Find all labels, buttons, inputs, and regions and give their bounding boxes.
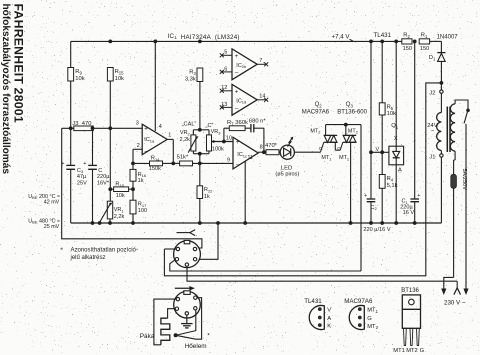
wire R17 to ground rail [132,214,134,223]
svg-text:100k: 100k [212,146,224,152]
svg-text:Q1: Q1 [391,123,399,129]
resistor J3 470 [74,126,93,131]
node pots top/R3 [198,128,202,132]
resistor R9 10k [68,68,74,82]
wire R14 right [163,162,174,164]
svg-text:R22: R22 [204,187,213,193]
svg-text:1k: 1k [204,194,210,200]
svg-text:10: 10 [226,136,232,142]
wire IC1a pin4 to rail [154,41,156,131]
VR3 wiper arrow to IC1c pin10 [212,141,233,143]
wire R3 to pots [199,82,201,130]
svg-text:25V: 25V [77,181,87,187]
node C/rail [91,221,95,225]
svg-text:„CAL”: „CAL” [182,122,197,128]
wire triac MT2 to heater pin [170,260,361,271]
svg-text:~: ~ [431,129,435,135]
node R18/R15col [108,187,112,191]
iron ground symbol [186,315,188,323]
wire R18 left [110,188,113,190]
svg-text:Q2: Q2 [315,102,323,108]
svg-text:Azonosíthatatlan pozíció-: Azonosíthatatlan pozíció- [71,248,138,254]
resistor R18 10k [114,187,129,192]
wire to R7 [224,127,229,129]
svg-text:51k*: 51k* [177,154,189,160]
mains arrow left [441,289,446,296]
svg-text:2,2k: 2,2k [114,214,125,220]
svg-text:+: + [236,139,240,146]
svg-text:150k: 150k [149,166,161,172]
svg-text:*: * [60,247,63,254]
wire REF to Q1 [371,151,389,153]
svg-text:1k: 1k [138,178,144,184]
svg-text:9: 9 [227,158,230,164]
node rail/Q1 cathode [394,40,398,44]
svg-text:MT2: MT2 [348,128,358,134]
connector J plug (iron) [174,291,201,318]
socket mating arrow [177,232,191,234]
svg-text:10k: 10k [75,76,84,82]
VR2 wiper arrow [188,137,196,152]
node R17/rail [131,221,135,225]
svg-text:12: 12 [221,85,227,91]
wire fuse down [453,188,455,277]
resistor R22 1k [197,186,203,199]
node rail/R15 [108,40,112,44]
wire C2 to ground rail [370,202,372,223]
svg-text:11: 11 [248,155,253,161]
node rail/C1 [413,40,417,44]
node VR1/rail [108,221,112,225]
svg-text:R7: R7 [227,120,234,126]
svg-text:+: + [83,161,86,167]
resistor R17 100 [130,200,136,214]
svg-text:IC1 HAI7324A (LM324): IC1 HAI7324A (LM324) [168,33,240,41]
wire ground rail [71,222,442,224]
resistor R14 150k [150,161,163,166]
svg-text:25 mV: 25 mV [44,224,60,230]
mains switch [466,109,470,113]
wire IC1c pin11 to ground rail [244,161,246,223]
wire Q2 MT1 down [334,142,336,150]
svg-text:J1: J1 [429,155,435,161]
svg-text:V: V [376,147,380,153]
wire Q3 MT1 to ground rail [350,142,352,223]
node R4/rail [380,221,384,225]
node rail/R3 [198,40,202,44]
svg-text:K: K [327,324,331,330]
wire MT2 bus down to heater wire [360,125,362,271]
svg-text:R2: R2 [403,33,410,39]
wire J2 supply to connector [164,83,441,276]
fuse 5A/250V [451,174,457,188]
capacitor C2 [367,198,376,200]
svg-text:MT1: MT1 [339,155,349,161]
wire pots bottom [193,153,209,155]
wire switch to mains [465,124,467,289]
svg-text:220 µ/16 V: 220 µ/16 V [363,227,390,233]
svg-text:1N4007: 1N4007 [437,35,459,41]
wire output column [172,139,174,163]
svg-text:MAC97A6: MAC97A6 [302,110,330,116]
capacitor C 220u 16V* [92,128,94,165]
svg-text:Hőelem: Hőelem [185,343,207,350]
wire 51k left [173,162,179,164]
wire rail to Q1 cathode [395,41,397,146]
svg-text:14: 14 [259,94,265,100]
svg-text:MAC97A6: MAC97A6 [344,298,373,305]
svg-text:150: 150 [403,46,412,52]
resistor 470* [266,150,279,155]
node output/51k/R14 [171,162,175,166]
node J3/R15 [108,126,112,130]
wire thermo+ to IC1a pin3 [62,127,143,129]
wire to fuse [453,160,455,174]
wire left column from rail to J3 node [70,41,72,128]
node VR1 wiper/ground [98,221,102,225]
wire R15col down to VR1 [109,128,111,201]
svg-text:IC1c: IC1c [237,152,247,158]
svg-text:+: + [144,126,148,133]
svg-text:IC1b: IC1b [236,63,247,69]
wire plug to thermocouple- [177,298,202,340]
node rail/IC1a pin4 [153,40,157,44]
wire plug to thermocouple+ [177,310,196,335]
svg-text:470*: 470* [265,143,278,149]
VR1 wiper arrow [100,204,111,223]
wire R22 to ground rail [199,199,201,224]
resistor R3 3.3k [197,68,203,82]
node C2/rail [369,221,373,225]
svg-text:R9: R9 [75,69,82,75]
wire plug to heater top [168,309,176,319]
triac Q3 BT136-600 [343,134,356,136]
wire Q3 gate [340,142,343,150]
svg-text:470: 470 [82,121,92,127]
svg-text:VR1: VR1 [114,207,125,213]
node C1/rail [413,221,417,225]
svg-text:8: 8 [260,145,263,151]
resistor R15 10k [107,68,113,82]
resistor R2 150 [402,39,412,44]
diode D1 1N4007 [437,52,445,54]
triac Q2 MAC97A6 [324,134,337,136]
svg-text:BT136-600: BT136-600 [337,110,367,116]
wire Q2 MT2 up [325,125,327,136]
svg-text:R1: R1 [421,33,428,39]
svg-text:BT136: BT136 [401,288,419,294]
wire to mains arrow left [444,277,454,288]
resistor R7 360k [229,126,245,131]
node Q3 MT2 [344,123,348,127]
heater element (Paka) [161,318,170,345]
wire top +7.4V rail [71,40,402,42]
resistor R16 1k [130,169,136,181]
svg-text:3: 3 [136,121,139,127]
node pin11/rail [243,221,247,225]
wire rail to C1 [414,41,416,198]
wire pots top [193,129,209,131]
svg-text:(ø5 piros): (ø5 piros) [275,171,299,177]
wire Q2 gate [320,142,323,152]
svg-text:MT1: MT1 [367,308,378,314]
wire rail to R5 [381,41,383,102]
svg-text:100: 100 [138,208,147,214]
wire VR2 bottom stub [192,151,194,154]
svg-text:4: 4 [159,124,162,130]
node R22/rail [198,221,202,225]
svg-text:5A/250V: 5A/250V [461,169,467,191]
svg-text:C2: C2 [370,205,377,211]
capacitor 680n* [250,124,252,132]
wire pin2 to R16 [132,149,134,169]
potentiometer VR2 2.2k CAL [191,135,196,151]
svg-text:+7,4 V: +7,4 V [332,34,351,41]
wire earth stub [456,281,458,287]
node pots bottom/R22 [198,152,202,156]
svg-text:47µ: 47µ [77,174,87,180]
LED flash arrow [288,137,293,146]
svg-text:16 V: 16 V [403,210,415,216]
svg-text:220µ: 220µ [97,174,110,180]
node Q3 MT1/rail [349,221,353,225]
svg-text:7: 7 [259,58,262,64]
wire Q1 anode to ground rail [395,165,397,223]
svg-text:MT2: MT2 [406,348,418,354]
capacitor C1 220u 16V [410,198,419,200]
wire R16 to R17 [132,181,134,200]
wire LED to Q2 gate [294,151,320,153]
svg-text:2,2k: 2,2k [180,137,191,143]
node J3/C3 [69,126,73,130]
svg-text:hőfokszabályozós forrasztóállo: hőfokszabályozós forrasztóállomás [0,4,11,175]
svg-text:–: – [235,70,239,77]
wire +7.4V tick [350,39,354,41]
svg-text:150: 150 [420,46,429,52]
svg-text:680 n*: 680 n* [249,119,267,125]
resistor R1 150 [419,39,429,44]
svg-text:MT2: MT2 [310,128,320,134]
svg-text:Q3: Q3 [346,102,354,108]
svg-text:R14: R14 [151,156,160,162]
wire Q2MT1 to Q3 gate [335,149,340,151]
node rail/C2 column [369,40,373,44]
svg-text:10k: 10k [115,76,124,82]
transformer primary [450,104,455,151]
resistor R4 5.1k [379,175,385,189]
svg-text:jelű alkatrész: jelű alkatrész [70,255,106,261]
svg-text:–: – [235,105,239,112]
wire D1 to J2 node [440,61,442,83]
node rail/R5 [380,40,384,44]
wire R1 to D1 [430,40,442,42]
svg-text:J3: J3 [72,121,78,127]
wire primary top to switch [455,100,468,109]
wire VR3 top stub [208,130,210,135]
wire connector to earth [187,266,457,281]
svg-text:10k: 10k [116,193,125,199]
svg-text:MT2: MT2 [367,324,378,330]
svg-text:MT1: MT1 [321,155,331,161]
node thermocouple junction [174,333,178,337]
wire Q3 MT2 up [345,125,347,136]
svg-text:R18: R18 [115,181,124,187]
node REF/C2 column [369,150,373,154]
potentiometer VR1 2.2k [107,201,112,219]
svg-text:C: C [98,168,102,174]
connector J socket (panel) [174,241,201,268]
svg-text:G: G [367,316,372,322]
LED (o5 piros) D [280,145,294,159]
wire ground rail to connector pin [197,223,218,259]
wire VR1 to ground rail [109,219,111,223]
wire R7 to 680n [245,127,251,129]
svg-text:R4: R4 [387,176,394,182]
wire to socket pin left-top [164,248,176,250]
wire pin10 node up [223,128,225,141]
svg-text:5: 5 [224,50,227,56]
potentiometer VR3 100k C [207,135,212,151]
svg-text:IC1a: IC1a [144,137,155,143]
switch arm [464,111,468,123]
svg-text:J2: J2 [429,90,435,96]
svg-text:+: + [235,53,239,60]
svg-text:FAHRENHEIT 28001: FAHRENHEIT 28001 [12,4,26,123]
transformer secondary 24V [440,93,442,112]
plug mating arrow [175,287,191,289]
svg-text:G: G [337,146,341,152]
svg-text:1: 1 [168,132,171,138]
earth chevron arrow [454,288,461,295]
node divider/REF [380,150,384,154]
svg-text:6: 6 [224,66,227,72]
wire feedback down to output [263,128,265,152]
svg-text:V: V [327,308,331,314]
svg-text:D1: D1 [429,55,436,61]
wire jog to fuse [454,159,456,161]
resistor R5 10k [379,103,385,115]
wire MT2 top bus [326,124,361,126]
wire VR3 bottom stub [208,151,210,154]
svg-text:„C”: „C” [206,123,214,129]
svg-text:TL431: TL431 [374,32,392,39]
node IC1c output [262,150,266,154]
svg-text:VR3: VR3 [211,129,222,135]
wire R15 to thermo+ node [109,81,111,128]
svg-text:R5: R5 [387,104,394,110]
capacitor C3 47u 25V [70,128,72,165]
svg-text:G: G [420,348,425,354]
svg-text:A: A [327,316,331,322]
svg-text:–: – [236,162,240,169]
svg-text:Páka: Páka [140,333,155,340]
wire IC1a pin2 stub [133,148,142,150]
svg-text:3,3k: 3,3k [185,76,196,82]
svg-text:2: 2 [137,143,140,149]
svg-text:13: 13 [221,102,227,108]
wire to R22 [199,154,201,186]
wire thermo+ to connector pin [62,128,202,248]
wire down to D1 [440,41,442,52]
svg-text:TL431: TL431 [304,298,322,305]
svg-text:360k: 360k [235,120,248,126]
svg-text:X: X [394,136,398,142]
wire R18 right [129,188,133,190]
node pin10/R7 [222,140,226,144]
svg-text:R15: R15 [115,69,125,75]
svg-text:G: G [319,146,323,152]
svg-text:42 mV: 42 mV [44,200,60,206]
wire 51k to IC1c pin9 [193,162,234,164]
node conn wire/rail [216,221,220,225]
op-amp IC1c [233,137,258,169]
node Q1/rail [394,221,398,225]
node pin2/R14 [131,162,135,166]
wire plug to heater bottom [154,299,176,345]
node D1/J2 [440,81,444,85]
connection J1 [440,154,443,157]
svg-text:10k: 10k [387,111,396,117]
svg-text:16V*: 16V* [97,181,110,187]
wire primary down [454,151,456,160]
svg-text:R17: R17 [138,202,147,208]
wire VR2 top stub [192,130,194,135]
node R16/R18 [131,187,135,191]
svg-text:+: + [417,193,420,199]
op-amp IC1b (unused) [232,49,257,80]
wire R5 to R4 [381,115,383,175]
wire rail to C2 [370,41,372,198]
op-amp IC1a [142,124,167,154]
wire J1 to ground rail [440,157,442,223]
wire IC1a output [167,138,173,140]
wire R4 to ground rail [381,188,383,223]
svg-text:R3: R3 [189,70,196,76]
svg-text:–: – [145,148,149,155]
wire 470 to LED [279,151,280,153]
resistor 51k* [180,161,193,166]
wire C1 to ground rail [414,202,416,223]
wire 680n right [254,127,264,129]
transformer core [446,107,448,153]
mains arrow right [463,289,468,296]
svg-text:VR2: VR2 [180,130,191,136]
svg-text:IC1d: IC1d [236,98,246,104]
op-amp IC1d (unused) [232,84,257,115]
svg-text:A: A [398,167,402,173]
svg-text:230 V ~: 230 V ~ [444,300,466,307]
node R22/pin9 wire [198,162,202,166]
svg-text:+: + [235,89,239,96]
wire R14 left [133,162,150,164]
svg-text:+: + [364,193,367,199]
svg-text:MT1: MT1 [393,348,405,354]
wire IC1c output [258,151,266,153]
node J3/C [91,126,95,130]
connection J2 [440,83,442,90]
